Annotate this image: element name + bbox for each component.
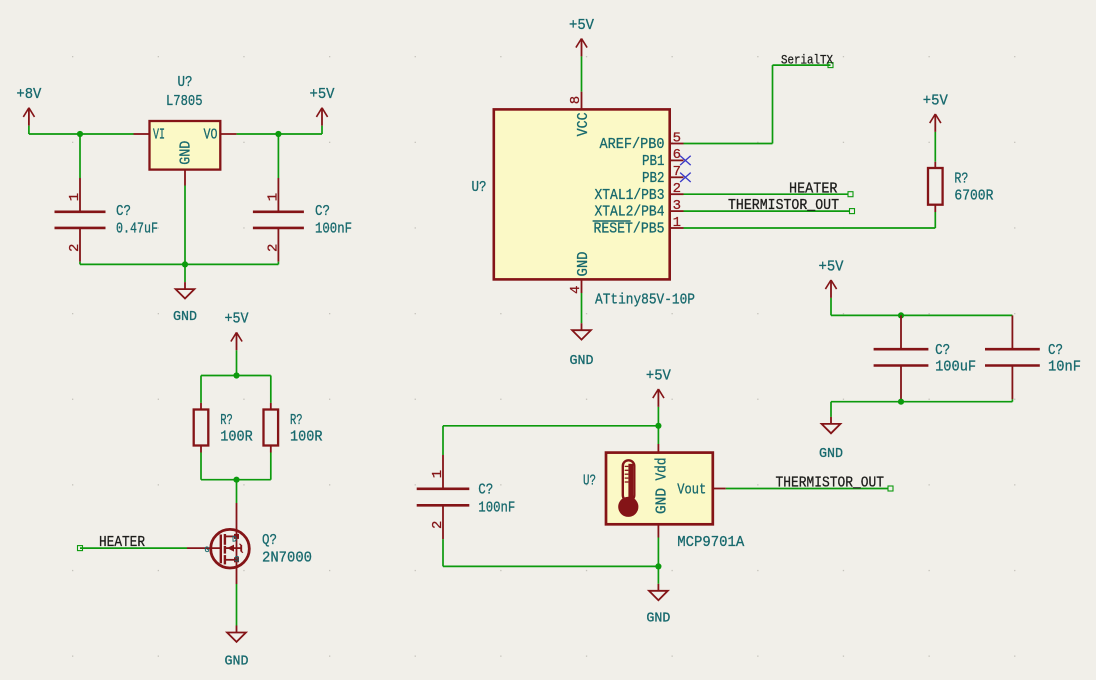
svg-text:R?: R? (220, 413, 233, 429)
svg-text:GND: GND (819, 447, 843, 462)
svg-text:XTAL1/PB3: XTAL1/PB3 (595, 188, 665, 204)
svg-text:HEATER: HEATER (99, 535, 145, 551)
svg-text:R?: R? (954, 172, 968, 188)
svg-text:+8V: +8V (16, 87, 41, 103)
svg-text:100R: 100R (290, 430, 323, 446)
svg-text:THERMISTOR_OUT: THERMISTOR_OUT (776, 476, 885, 492)
svg-text:D: D (232, 535, 237, 544)
svg-text:1: 1 (67, 193, 83, 201)
svg-text:8: 8 (568, 96, 584, 104)
svg-text:GND: GND (654, 488, 670, 514)
svg-text:C?: C? (478, 483, 493, 499)
svg-text:AREF/PB0: AREF/PB0 (600, 137, 665, 153)
svg-text:XTAL2/PB4: XTAL2/PB4 (595, 205, 665, 221)
svg-text:SerialTX: SerialTX (781, 53, 833, 67)
svg-text:0.47uF: 0.47uF (116, 222, 158, 238)
svg-text:L7805: L7805 (166, 94, 203, 110)
svg-text:R?: R? (290, 413, 303, 429)
svg-text:U?: U? (178, 75, 193, 91)
svg-text:6700R: 6700R (954, 189, 993, 205)
svg-text:PB1: PB1 (642, 154, 665, 170)
svg-text:THERMISTOR_OUT: THERMISTOR_OUT (728, 198, 839, 214)
svg-text:3: 3 (673, 198, 681, 214)
svg-text:+5V: +5V (819, 259, 844, 275)
svg-text:+5V: +5V (923, 93, 948, 109)
svg-text:VO: VO (204, 128, 218, 144)
svg-text:GND: GND (173, 310, 197, 325)
svg-text:GND: GND (646, 612, 670, 627)
svg-text:2: 2 (265, 244, 281, 252)
svg-text:2: 2 (67, 244, 83, 252)
svg-text:100nF: 100nF (315, 222, 352, 238)
svg-text:2N7000: 2N7000 (262, 550, 312, 566)
svg-text:U?: U? (583, 474, 596, 490)
svg-text:GND: GND (576, 252, 592, 277)
svg-text:1: 1 (265, 193, 281, 201)
svg-text:C?: C? (935, 343, 950, 359)
svg-text:10nF: 10nF (1048, 359, 1081, 375)
svg-text:C?: C? (315, 204, 330, 220)
svg-text:+5V: +5V (310, 87, 335, 103)
svg-text:4: 4 (568, 286, 584, 294)
svg-text:6: 6 (673, 147, 681, 163)
svg-text:100nF: 100nF (478, 501, 515, 517)
svg-text:1: 1 (430, 470, 446, 478)
svg-text:2: 2 (673, 181, 681, 197)
svg-text:Vout: Vout (677, 482, 706, 498)
svg-text:C?: C? (1048, 343, 1063, 359)
svg-text:G: G (205, 546, 210, 555)
svg-text:100R: 100R (220, 430, 253, 446)
svg-text:Vdd: Vdd (655, 458, 671, 481)
svg-text:HEATER: HEATER (789, 181, 838, 197)
svg-text:7: 7 (673, 164, 681, 180)
svg-text:RESET/PB5: RESET/PB5 (594, 222, 665, 238)
svg-text:PB2: PB2 (642, 171, 665, 187)
svg-text:VI: VI (153, 128, 165, 144)
svg-text:Q?: Q? (262, 533, 277, 549)
svg-text:+5V: +5V (646, 368, 671, 384)
svg-text:+5V: +5V (569, 18, 594, 34)
svg-text:2: 2 (430, 521, 446, 529)
svg-text:GND: GND (570, 354, 594, 369)
svg-text:C?: C? (116, 204, 131, 220)
svg-text:GND: GND (225, 655, 249, 670)
svg-text:U?: U? (472, 180, 487, 196)
svg-text:ATtiny85V-10P: ATtiny85V-10P (595, 293, 695, 309)
svg-text:+5V: +5V (225, 312, 249, 328)
svg-text:1: 1 (673, 215, 681, 231)
svg-text:VCC: VCC (576, 112, 592, 136)
svg-text:S: S (235, 556, 240, 565)
svg-text:100uF: 100uF (935, 359, 976, 375)
svg-text:MCP9701A: MCP9701A (677, 535, 744, 551)
svg-text:5: 5 (673, 130, 681, 146)
svg-text:GND: GND (178, 141, 194, 165)
